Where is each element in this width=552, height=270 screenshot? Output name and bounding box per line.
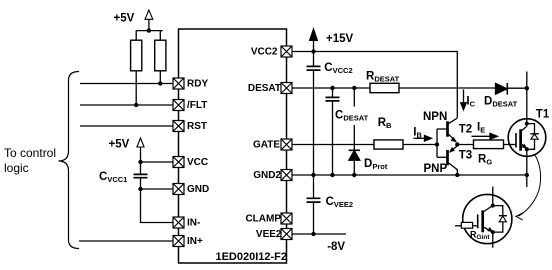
pin DESAT: [281, 83, 292, 94]
node +5V top: [147, 28, 151, 32]
svg-text:To control: To control: [4, 146, 56, 160]
svg-text:RDY: RDY: [187, 79, 208, 90]
wire T1 emitter: [526, 149, 528, 187]
pin VCC: [173, 157, 184, 168]
node DProt/DESAT: [352, 86, 356, 90]
wire GND2 rail: [292, 174, 527, 176]
wire /FLT from brace: [80, 104, 173, 106]
wire detail collector stub: [492, 187, 494, 206]
svg-text:T2: T2: [459, 123, 472, 135]
wire GATE line: [292, 144, 437, 146]
node GND/IN-: [138, 187, 142, 191]
power +15V arrow: [310, 29, 318, 52]
wire +5V node: [136, 30, 163, 32]
svg-text:T1: T1: [536, 109, 550, 121]
pin IN-: [173, 217, 184, 228]
node GND2/PNP: [455, 173, 459, 177]
svg-text:T3: T3: [459, 150, 472, 162]
current arrow IB: [414, 136, 432, 142]
wire RST from brace: [80, 125, 173, 127]
pin RST: [173, 121, 184, 132]
svg-text:-8V: -8V: [327, 241, 345, 253]
pin CLAMP: [281, 213, 292, 224]
wire RG to gate: [504, 144, 517, 146]
wire IN+ from brace: [79, 240, 173, 242]
svg-text:1ED020I12-F2: 1ED020I12-F2: [215, 251, 287, 263]
resistor RG: [474, 140, 504, 149]
node emitter output: [455, 142, 459, 146]
pin GATE: [281, 139, 292, 150]
svg-text:/FLT: /FLT: [187, 100, 207, 111]
IGBT T1: [508, 119, 546, 157]
svg-text:+5V: +5V: [109, 139, 130, 151]
svg-text:NPN: NPN: [423, 111, 447, 123]
svg-text:GND: GND: [187, 184, 209, 195]
svg-text:+5V: +5V: [114, 13, 135, 25]
power +5V arrow left: [137, 138, 144, 162]
pin GND: [173, 184, 184, 195]
wire R2 bottom lead to RDY: [159, 71, 161, 84]
transistor Q T3 PNP: [437, 146, 457, 175]
capacitor CDESAT branch: [326, 88, 340, 175]
pin VEE2: [281, 229, 292, 240]
wire VEE2: [292, 233, 346, 235]
diode DProt branch: [349, 88, 360, 175]
current arrow IE: [472, 133, 498, 139]
wire detail emitter stub: [492, 232, 494, 248]
svg-text:IN-: IN-: [187, 218, 200, 229]
node R2/RDY: [158, 81, 162, 85]
node R1//FLT: [134, 103, 138, 107]
wire VCC: [141, 161, 174, 163]
wire DESAT line: [292, 87, 496, 89]
svg-text:+15V: +15V: [326, 33, 354, 45]
pin VCC2: [281, 46, 292, 57]
wire resistor R1 top lead: [135, 31, 137, 41]
svg-text:IN+: IN+: [187, 236, 203, 247]
diode DDESAT: [496, 83, 527, 95]
svg-text:GATE: GATE: [253, 140, 280, 151]
wire RDY from brace: [80, 83, 173, 85]
pin IN+: [173, 236, 184, 247]
wire GND: [141, 188, 174, 190]
current arrow IC: [461, 90, 467, 110]
svg-text:VEE2: VEE2: [256, 229, 282, 240]
node GND2/T1 emitter: [525, 173, 529, 177]
resistor R1 pullup: [131, 40, 142, 71]
pin /FLT: [173, 100, 184, 111]
wire VCC2 to collector line: [292, 52, 457, 118]
capacitor CVEE2: [307, 175, 321, 234]
wire resistor R2 top lead: [159, 31, 161, 41]
svg-text:VCC2: VCC2: [251, 47, 278, 58]
svg-text:VCC: VCC: [187, 157, 208, 168]
wire output to RG: [457, 144, 473, 146]
IGBT detail circle with RGint: [455, 194, 512, 243]
node GND2/CVCC2: [311, 173, 315, 177]
resistor R2 pullup: [155, 40, 166, 71]
node VEE2/CVEE2: [311, 232, 315, 236]
pin RDY: [173, 78, 184, 89]
node DDESAT/collector: [525, 86, 529, 90]
wire T1 collector stub: [526, 72, 528, 124]
svg-text:DESAT: DESAT: [248, 83, 281, 94]
capacitor CVCC1: [134, 162, 148, 189]
node +15V/VCC2: [311, 49, 315, 53]
svg-text:CLAMP: CLAMP: [245, 214, 281, 225]
svg-text:logic: logic: [4, 161, 29, 175]
pin GND2: [281, 170, 292, 181]
wire R1 bottom lead to /FLT: [135, 71, 137, 105]
node CDESAT/DESAT: [330, 86, 334, 90]
label white patch CDESAT: [335, 107, 371, 126]
pointer arrow to detail: [516, 155, 541, 220]
svg-text:PNP: PNP: [424, 163, 448, 175]
wire base split: [436, 129, 438, 157]
capacitor CVCC2: [307, 52, 321, 176]
node GND2/DProt: [352, 173, 356, 177]
node GND2/CDESAT: [330, 173, 334, 177]
node base input: [435, 142, 439, 146]
svg-text:RST: RST: [187, 121, 207, 132]
IC U1 1ED020I12-F2 body: [179, 29, 287, 263]
svg-text:GND2: GND2: [253, 170, 281, 181]
resistor RB: [374, 140, 403, 149]
brace to control logic: [59, 72, 80, 249]
power +5V arrow top: [145, 10, 153, 31]
wire GND to IN-: [141, 189, 174, 223]
node +5V/VCC: [138, 160, 142, 164]
resistor RDESAT: [370, 83, 399, 92]
transistor Q T2 NPN: [437, 118, 457, 143]
